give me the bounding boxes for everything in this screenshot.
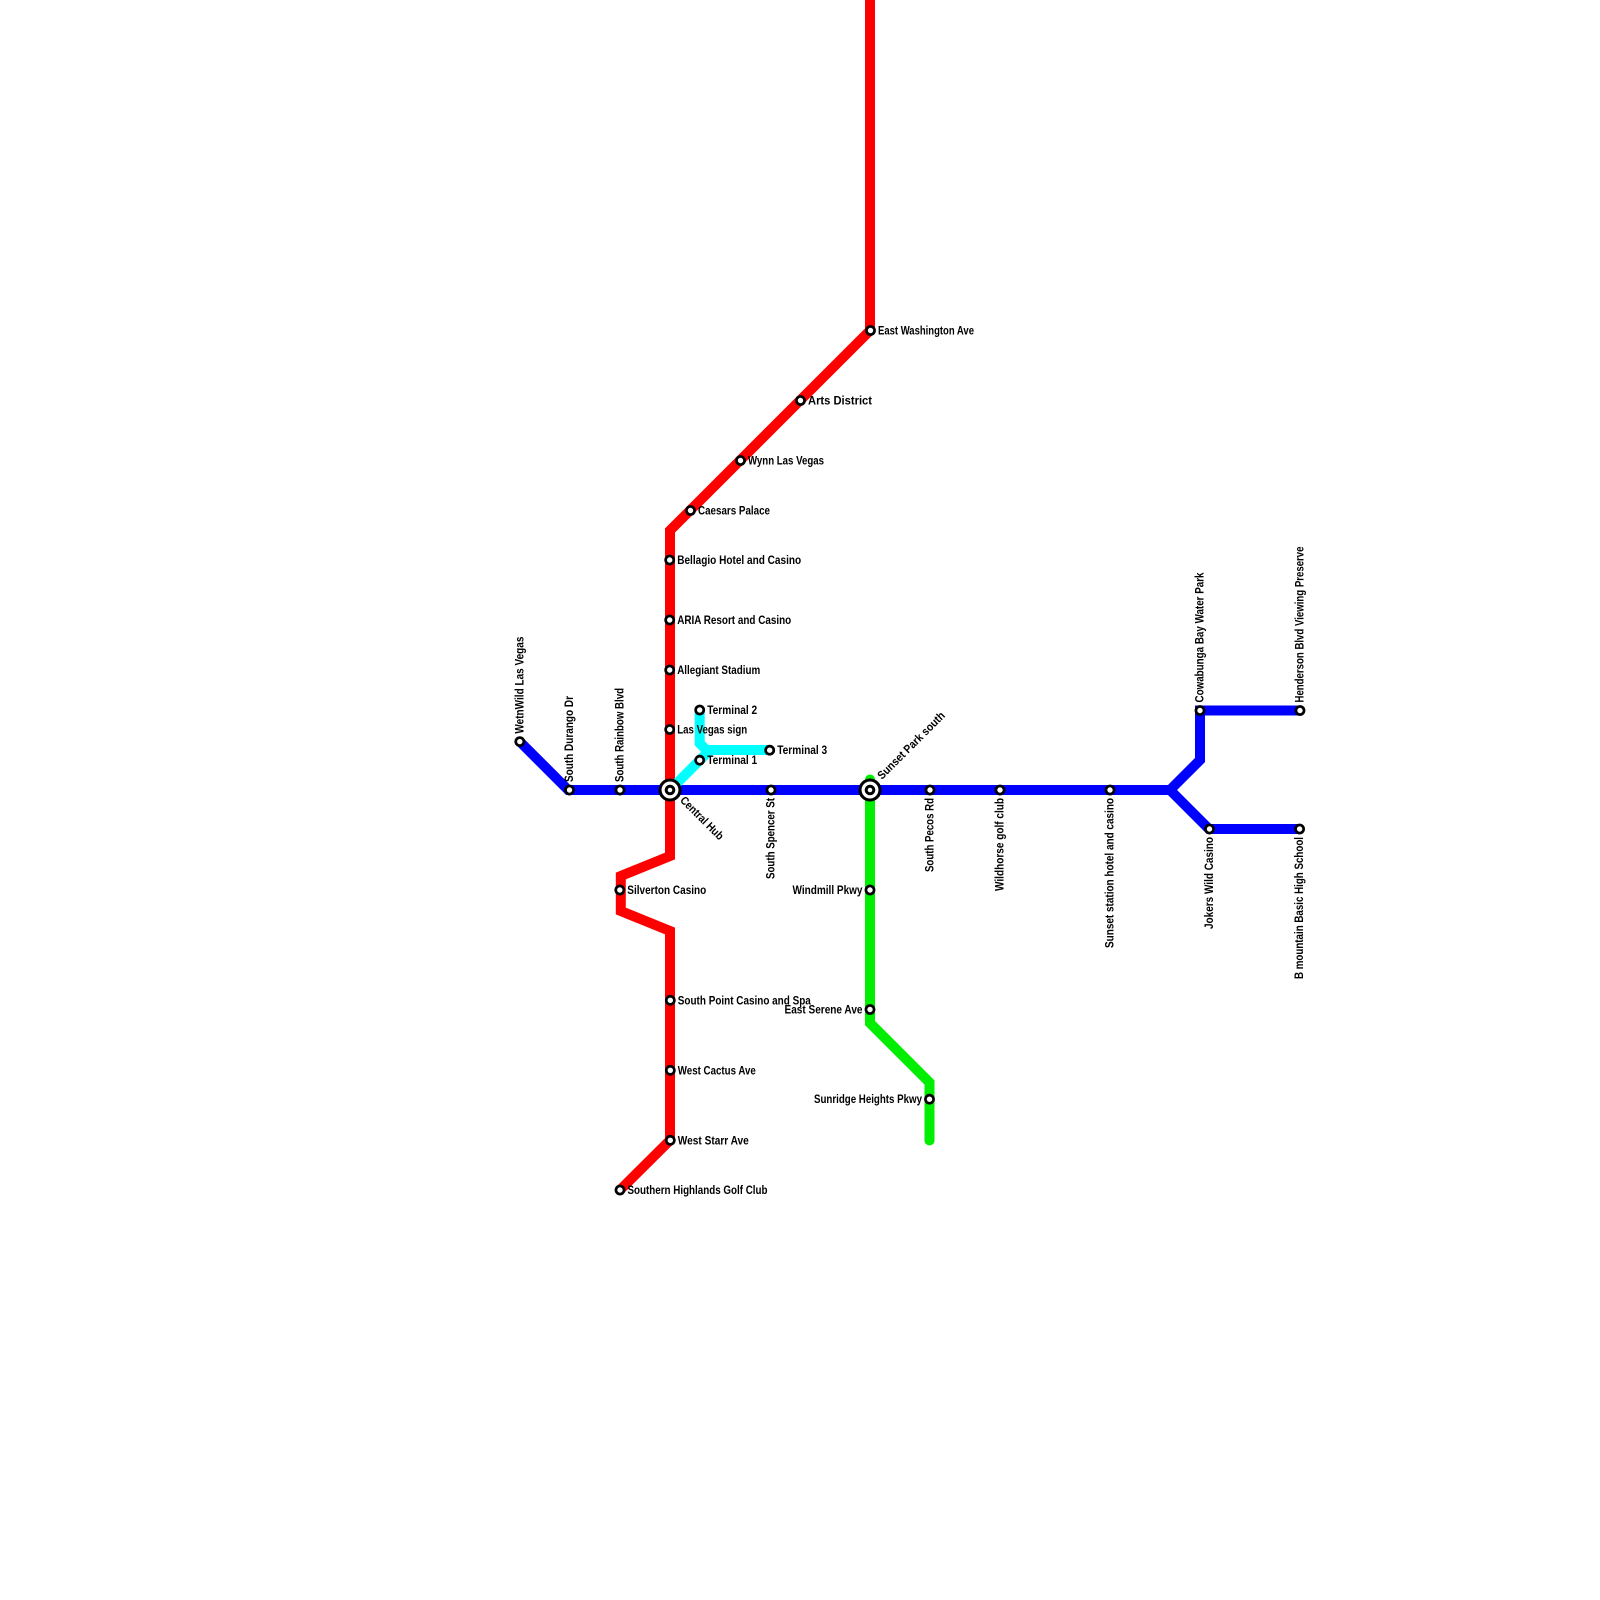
station ARIA Resort and Casino xyxy=(666,615,792,627)
svg-text:Henderson Blvd Viewing Preserv: Henderson Blvd Viewing Preserve xyxy=(1295,547,1307,703)
station Allegiant Stadium xyxy=(666,665,761,677)
station Terminal 3 xyxy=(766,745,828,757)
station Wildhorse golf club xyxy=(995,786,1007,891)
green line xyxy=(870,780,930,1141)
svg-text:B mountain Basic High School: B mountain Basic High School xyxy=(1294,837,1306,979)
station WetnWild Las Vegas xyxy=(514,637,526,746)
station B mountain Basic High School xyxy=(1294,825,1306,979)
svg-text:South Spencer St: South Spencer St xyxy=(766,798,778,879)
station South Durango Dr xyxy=(564,696,576,794)
cyan airport branch hub-T1 xyxy=(670,750,710,790)
svg-text:Sunridge Heights Pkwy: Sunridge Heights Pkwy xyxy=(814,1094,923,1106)
station Sunset Park south xyxy=(860,710,948,800)
station South Point Casino and Spa xyxy=(666,995,811,1007)
station Southern Highlands Golf Club xyxy=(616,1185,768,1197)
station Silverton Casino xyxy=(616,885,707,897)
svg-text:Las Vegas sign: Las Vegas sign xyxy=(677,725,747,737)
svg-text:West Cactus Ave: West Cactus Ave xyxy=(678,1065,756,1077)
svg-text:South Durango Dr: South Durango Dr xyxy=(564,696,576,782)
svg-text:Silverton Casino: Silverton Casino xyxy=(627,885,706,897)
station Terminal 1 xyxy=(696,755,758,767)
svg-text:Wynn Las Vegas: Wynn Las Vegas xyxy=(748,456,824,468)
blue line upper branch to Henderson xyxy=(1170,711,1300,791)
svg-text:Allegiant Stadium: Allegiant Stadium xyxy=(677,665,760,677)
svg-text:ARIA Resort and Casino: ARIA Resort and Casino xyxy=(677,615,791,627)
svg-text:South Rainbow Blvd: South Rainbow Blvd xyxy=(615,688,627,782)
station Sunridge Heights Pkwy xyxy=(814,1094,934,1106)
green line end round caps xyxy=(865,775,875,785)
svg-text:Windmill Pkwy: Windmill Pkwy xyxy=(793,885,864,897)
station South Rainbow Blvd xyxy=(615,688,627,794)
svg-text:Jokers Wild Casino: Jokers Wild Casino xyxy=(1204,837,1216,929)
svg-text:Sunset station hotel and casin: Sunset station hotel and casino xyxy=(1105,798,1117,948)
station Central Hub xyxy=(660,780,725,843)
station South Pecos Rd xyxy=(925,786,937,872)
svg-text:Cowabunga Bay Water Park: Cowabunga Bay Water Park xyxy=(1195,572,1207,703)
station Caesars Palace xyxy=(686,506,770,518)
station Arts District xyxy=(796,396,872,408)
station West Cactus Ave xyxy=(666,1065,756,1077)
svg-text:Southern Highlands Golf Club: Southern Highlands Golf Club xyxy=(628,1185,768,1197)
svg-text:Arts District: Arts District xyxy=(808,396,872,408)
station Cowabunga Bay Water Park xyxy=(1195,572,1207,715)
svg-text:Terminal 3: Terminal 3 xyxy=(777,745,827,757)
svg-text:West Starr Ave: West Starr Ave xyxy=(678,1135,749,1147)
blue line west diagonal + trunk xyxy=(520,742,1170,790)
svg-text:South Pecos Rd: South Pecos Rd xyxy=(925,798,937,872)
station Terminal 2 xyxy=(696,705,758,717)
red line (Strip line) top + main trunk xyxy=(620,0,870,1190)
station East Serene Ave xyxy=(785,1005,875,1017)
station Jokers Wild Casino xyxy=(1204,825,1216,929)
station Henderson Blvd Viewing Preserve xyxy=(1295,547,1307,715)
station South Spencer St xyxy=(766,786,778,879)
svg-text:Bellagio Hotel and Casino: Bellagio Hotel and Casino xyxy=(677,555,801,567)
svg-text:East Washington Ave: East Washington Ave xyxy=(878,326,974,338)
svg-text:Caesars Palace: Caesars Palace xyxy=(698,506,770,518)
cyan airport branch T2-T3 xyxy=(700,710,770,750)
station Bellagio Hotel and Casino xyxy=(666,555,802,567)
station Wynn Las Vegas xyxy=(736,456,824,468)
svg-text:Wildhorse golf club: Wildhorse golf club xyxy=(995,798,1007,891)
station Windmill Pkwy xyxy=(793,885,875,897)
svg-text:East Serene Ave: East Serene Ave xyxy=(785,1005,863,1017)
station Sunset station hotel and casino xyxy=(1105,786,1117,948)
station West Starr Ave xyxy=(666,1135,749,1147)
station East Washington Ave xyxy=(866,326,974,338)
svg-text:Terminal 2: Terminal 2 xyxy=(707,705,757,717)
blue line lower branch to B mountain xyxy=(1170,790,1300,829)
svg-text:Terminal 1: Terminal 1 xyxy=(707,755,758,767)
station Las Vegas sign xyxy=(666,725,748,737)
svg-text:WetnWild Las Vegas: WetnWild Las Vegas xyxy=(514,637,526,734)
